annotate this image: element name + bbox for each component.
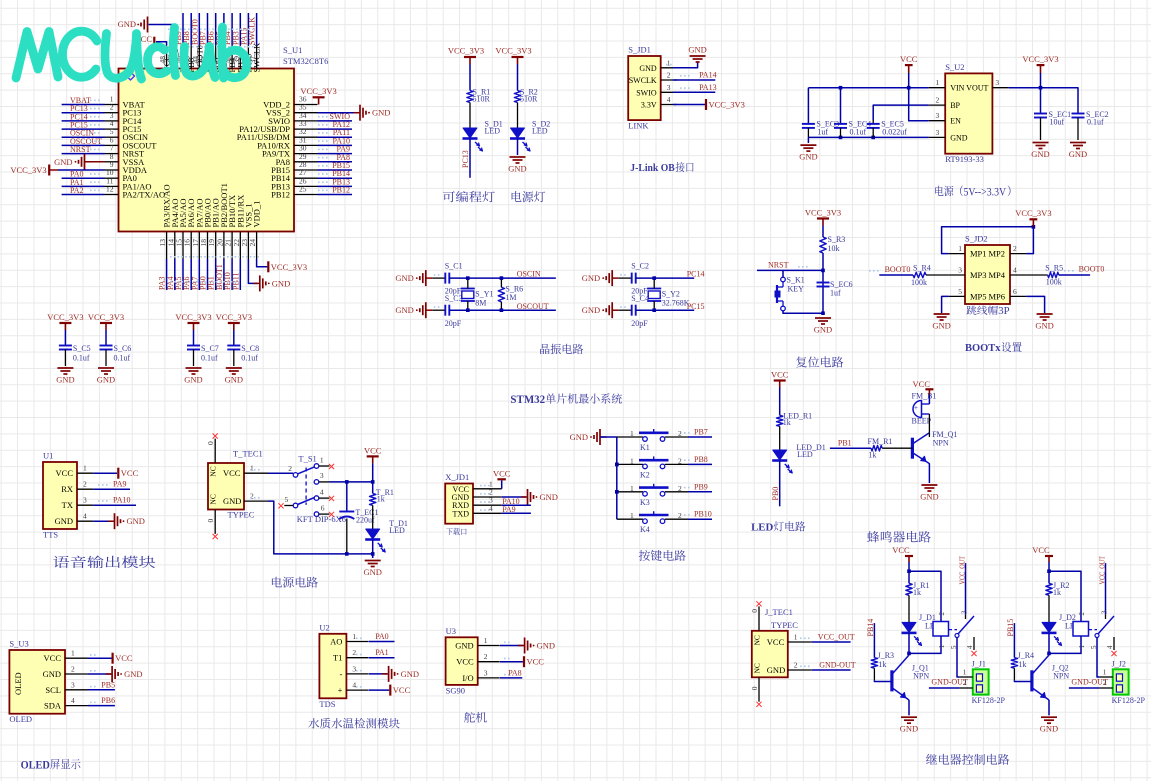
svg-text:GND: GND: [799, 152, 817, 162]
svg-text:GND: GND: [582, 305, 600, 315]
svg-text:3: 3: [935, 128, 939, 137]
svg-text:GND: GND: [43, 669, 61, 679]
svg-text:20pF: 20pF: [445, 319, 462, 328]
svg-text:K4: K4: [640, 525, 650, 534]
svg-text:GND: GND: [639, 64, 657, 73]
svg-text:NPN: NPN: [1053, 672, 1069, 681]
svg-text:VCC: VCC: [892, 545, 910, 555]
svg-text:VCC_3V3: VCC_3V3: [10, 165, 46, 175]
svg-text:PB5: PB5: [101, 680, 115, 689]
svg-text:GND: GND: [372, 108, 390, 118]
svg-text:VCC_3V3: VCC_3V3: [47, 312, 83, 322]
svg-text:S_U1: S_U1: [283, 45, 302, 55]
svg-text:LED: LED: [751, 521, 773, 533]
svg-text:RT9193-33: RT9193-33: [945, 154, 984, 164]
svg-text:3: 3: [352, 664, 356, 673]
svg-text:1: 1: [935, 78, 939, 87]
svg-text:3: 3: [958, 266, 962, 275]
svg-text:GND: GND: [401, 669, 419, 679]
svg-text:AO: AO: [330, 637, 342, 647]
svg-text:510R: 510R: [520, 95, 538, 104]
svg-text:VCC_OUT: VCC_OUT: [1098, 556, 1107, 585]
svg-text:1: 1: [1078, 644, 1086, 648]
svg-text:NRST: NRST: [768, 261, 789, 270]
svg-text:4: 4: [1013, 266, 1017, 275]
svg-text:1: 1: [630, 456, 634, 465]
svg-text:OSCOUT: OSCOUT: [517, 302, 549, 311]
svg-text:1: 1: [938, 644, 946, 648]
svg-text:VCC: VCC: [456, 657, 474, 667]
svg-text:10k: 10k: [828, 244, 840, 253]
svg-text:6: 6: [321, 504, 325, 513]
svg-text:S_C3: S_C3: [445, 294, 463, 303]
svg-text:PB10: PB10: [694, 510, 712, 519]
svg-text:VCC: VCC: [56, 468, 74, 478]
svg-text:GND: GND: [184, 375, 202, 385]
svg-text:GND: GND: [537, 641, 555, 651]
svg-text:2: 2: [83, 480, 87, 489]
svg-text:0.1uf: 0.1uf: [73, 354, 90, 363]
svg-text:VCC: VCC: [121, 468, 139, 478]
svg-text:PB9: PB9: [694, 482, 708, 491]
svg-text:STM32C8T6: STM32C8T6: [283, 56, 328, 66]
svg-text:1: 1: [83, 464, 87, 473]
svg-text:BEEP: BEEP: [912, 417, 932, 426]
svg-text:PC14: PC14: [687, 270, 705, 279]
svg-text:T_TEC1: T_TEC1: [233, 449, 263, 459]
svg-text:100k: 100k: [1046, 278, 1062, 287]
svg-text:SWIO: SWIO: [636, 88, 657, 97]
svg-text:5: 5: [958, 287, 962, 296]
svg-text:TTS: TTS: [43, 530, 58, 540]
svg-text:LINK: LINK: [628, 121, 649, 131]
svg-text:VCC_3V3: VCC_3V3: [1015, 208, 1051, 218]
svg-text:VCC_3V3: VCC_3V3: [216, 312, 252, 322]
svg-text:S_C5: S_C5: [73, 344, 91, 353]
svg-text:S_R5: S_R5: [1045, 264, 1063, 273]
svg-text:LED: LED: [485, 126, 501, 135]
svg-text:S_C4: S_C4: [631, 294, 649, 303]
svg-text:NPN: NPN: [933, 439, 949, 448]
svg-text:GND: GND: [767, 665, 785, 675]
svg-text:10uf: 10uf: [1050, 118, 1065, 127]
svg-text:3: 3: [83, 496, 87, 505]
svg-text:J_R3: J_R3: [878, 651, 894, 660]
svg-text:BOOT0: BOOT0: [885, 265, 911, 274]
svg-text:FM_R1: FM_R1: [868, 437, 893, 446]
svg-text:GND: GND: [225, 375, 243, 385]
svg-text:VCC: VCC: [393, 685, 411, 695]
svg-text:GND: GND: [688, 45, 706, 55]
svg-text:S_C2: S_C2: [631, 262, 649, 271]
svg-text:S_JD2: S_JD2: [965, 234, 988, 244]
svg-text:2: 2: [1013, 244, 1017, 253]
svg-text:SCL: SCL: [45, 685, 61, 695]
svg-text:OLED: OLED: [13, 672, 23, 695]
svg-text:2: 2: [963, 678, 967, 687]
svg-text:100k: 100k: [911, 278, 927, 287]
svg-text:SWCLK: SWCLK: [248, 17, 257, 45]
svg-text:GND: GND: [920, 492, 938, 502]
svg-text:VCC_3V3: VCC_3V3: [300, 86, 336, 96]
svg-text:I/O: I/O: [462, 673, 473, 683]
svg-text:U2: U2: [319, 622, 329, 632]
svg-text:3P: 3P: [998, 306, 1010, 317]
svg-text:+: +: [338, 685, 343, 695]
svg-text:K3: K3: [640, 498, 650, 507]
svg-text:BOOTx: BOOTx: [965, 342, 1001, 354]
svg-text:12: 12: [106, 185, 114, 194]
svg-text:PA8: PA8: [508, 668, 522, 677]
svg-text:GND: GND: [1040, 724, 1058, 734]
svg-text:VCC_3V3: VCC_3V3: [175, 312, 211, 322]
svg-text:PC15: PC15: [687, 302, 705, 311]
svg-text:X_JD1: X_JD1: [445, 472, 469, 482]
svg-text:S_U3: S_U3: [9, 639, 28, 649]
svg-text:2: 2: [938, 612, 946, 616]
svg-text:PA9: PA9: [502, 505, 516, 514]
svg-text:VCC: VCC: [223, 468, 241, 478]
svg-text:TYPEC: TYPEC: [771, 620, 798, 630]
svg-text:0.1uf: 0.1uf: [1087, 118, 1104, 127]
svg-text:VOUT: VOUT: [966, 84, 988, 93]
svg-text:6: 6: [1013, 287, 1017, 296]
svg-text:K1: K1: [640, 443, 650, 452]
svg-text:J_J1: J_J1: [972, 660, 986, 669]
svg-text:GND-OUT: GND-OUT: [819, 660, 856, 669]
svg-text:2: 2: [794, 661, 798, 670]
svg-text:VCC: VCC: [44, 653, 62, 663]
svg-text:VCC: VCC: [493, 469, 511, 479]
svg-text:NPN: NPN: [913, 672, 929, 681]
svg-text:1M: 1M: [505, 293, 516, 302]
svg-text:0: 0: [750, 609, 759, 613]
svg-text:PA13: PA13: [699, 83, 717, 92]
svg-text:+: +: [914, 404, 918, 412]
svg-text:MP2: MP2: [988, 249, 1005, 259]
svg-text:PA14: PA14: [699, 71, 717, 80]
svg-text:NC: NC: [752, 635, 761, 645]
svg-text:VCC_3V3: VCC_3V3: [495, 46, 531, 56]
svg-text:S_C8: S_C8: [241, 344, 259, 353]
svg-text:J-Link OB: J-Link OB: [630, 163, 675, 175]
svg-text:VCC: VCC: [771, 370, 789, 380]
svg-text:RX: RX: [61, 484, 73, 494]
svg-text:0: 0: [206, 441, 215, 445]
svg-text:2: 2: [352, 648, 356, 657]
svg-text:PB1: PB1: [838, 439, 852, 448]
svg-text:VIN: VIN: [950, 84, 964, 93]
svg-text:4: 4: [71, 696, 75, 705]
svg-text:1: 1: [250, 464, 254, 473]
svg-text:GND: GND: [55, 516, 73, 526]
svg-text:VCC_3V3: VCC_3V3: [1022, 54, 1058, 64]
svg-text:STM32: STM32: [510, 394, 545, 406]
svg-text:FM_B1: FM_B1: [912, 392, 937, 401]
svg-text:PA0: PA0: [375, 632, 389, 641]
svg-text:GND: GND: [124, 669, 142, 679]
svg-text:GND: GND: [363, 567, 381, 577]
svg-text:GND: GND: [395, 305, 413, 315]
svg-text:1: 1: [320, 456, 324, 465]
svg-text:1k: 1k: [783, 418, 791, 427]
svg-text:PA1: PA1: [375, 648, 389, 657]
svg-text:PB6: PB6: [101, 696, 115, 705]
svg-text:1uf: 1uf: [830, 289, 841, 298]
svg-text:PB8: PB8: [694, 455, 708, 464]
svg-text:J_R4: J_R4: [1018, 651, 1034, 660]
svg-text:0.1uf: 0.1uf: [201, 354, 218, 363]
svg-text:GND: GND: [127, 516, 145, 526]
svg-text:PC13: PC13: [461, 150, 470, 168]
svg-text:BOOT0: BOOT0: [1079, 265, 1105, 274]
svg-text:PB15: PB15: [1006, 619, 1015, 637]
svg-text:4: 4: [320, 488, 324, 497]
svg-text:4: 4: [1106, 645, 1114, 649]
svg-text:S_C7: S_C7: [201, 344, 219, 353]
svg-text:K2: K2: [640, 470, 650, 479]
svg-text:4: 4: [83, 512, 87, 521]
svg-text:GND: GND: [455, 641, 473, 651]
svg-text:PA9: PA9: [113, 480, 127, 489]
svg-text:VCC: VCC: [900, 54, 918, 64]
svg-text:GND: GND: [1031, 149, 1049, 159]
svg-text:MP6: MP6: [988, 291, 1005, 301]
svg-text:VCC_OUT: VCC_OUT: [958, 556, 967, 585]
svg-text:4: 4: [489, 504, 493, 513]
svg-text:1k: 1k: [1018, 660, 1026, 669]
svg-text:KFT DIP-6X6: KFT DIP-6X6: [297, 514, 346, 524]
svg-text:S_K1: S_K1: [787, 276, 805, 285]
svg-text:VCC: VCC: [767, 637, 785, 647]
svg-text:0: 0: [206, 519, 215, 523]
svg-text:VCC_OUT: VCC_OUT: [818, 632, 855, 641]
svg-text:PB12: PB12: [332, 186, 350, 195]
svg-text:GND: GND: [1069, 149, 1087, 159]
svg-text:GND: GND: [54, 157, 72, 167]
svg-text:S_R3: S_R3: [828, 235, 846, 244]
svg-text:NC: NC: [209, 466, 218, 476]
svg-text:PA10: PA10: [113, 496, 131, 505]
svg-text:MP1: MP1: [970, 249, 987, 259]
svg-text:510R: 510R: [473, 95, 491, 104]
svg-text:3: 3: [1101, 610, 1109, 614]
svg-text:J_TEC1: J_TEC1: [765, 607, 793, 617]
svg-text:0: 0: [750, 686, 759, 690]
svg-text:2: 2: [935, 96, 939, 105]
svg-text:S_U2: S_U2: [945, 62, 964, 72]
svg-text:VCC_3V3: VCC_3V3: [805, 208, 841, 218]
svg-text:3: 3: [667, 83, 671, 92]
svg-text:VCC: VCC: [913, 379, 931, 389]
svg-text:1uf: 1uf: [817, 128, 828, 137]
svg-text:KF128-2P: KF128-2P: [1112, 696, 1146, 705]
svg-text:1: 1: [630, 511, 634, 520]
svg-text:5V-->3.3V: 5V-->3.3V: [964, 186, 1007, 199]
svg-text:2: 2: [288, 464, 292, 473]
svg-text:SG90: SG90: [446, 685, 465, 695]
svg-text:1: 1: [667, 58, 671, 67]
svg-text:SWCLK: SWCLK: [629, 76, 657, 85]
svg-text:4: 4: [966, 645, 974, 649]
svg-text:KEY: KEY: [788, 285, 805, 294]
svg-text:1: 1: [1103, 668, 1107, 677]
svg-text:VCC_3V3: VCC_3V3: [271, 262, 307, 272]
svg-text:NRST: NRST: [70, 145, 91, 154]
svg-text:2: 2: [71, 665, 75, 674]
svg-text:1k: 1k: [868, 451, 876, 460]
svg-text:1: 1: [71, 649, 75, 658]
svg-text:PB14: PB14: [866, 619, 875, 637]
svg-text:3: 3: [484, 668, 488, 677]
svg-text:2: 2: [250, 492, 254, 501]
svg-text:PA2: PA2: [70, 186, 84, 195]
svg-text:1: 1: [630, 484, 634, 493]
svg-text:8M: 8M: [475, 299, 486, 308]
svg-text:TXD: TXD: [453, 509, 470, 518]
svg-text:20pF: 20pF: [631, 319, 648, 328]
svg-text:VCC_3V3: VCC_3V3: [709, 100, 745, 110]
svg-text:S_R4: S_R4: [913, 264, 931, 273]
svg-text:TYPEC: TYPEC: [228, 510, 255, 520]
svg-text:OSCIN: OSCIN: [517, 270, 541, 279]
svg-text:1: 1: [484, 636, 488, 645]
svg-text:VCC: VCC: [115, 653, 133, 663]
svg-text:J_J2: J_J2: [1112, 660, 1126, 669]
svg-text:GND: GND: [223, 496, 241, 506]
svg-text:1k: 1k: [377, 495, 385, 504]
svg-text:EN: EN: [950, 117, 961, 126]
svg-text:PB7: PB7: [694, 428, 708, 437]
svg-text:NC: NC: [209, 494, 218, 504]
svg-text:MP5: MP5: [970, 291, 987, 301]
svg-text:3: 3: [935, 111, 939, 120]
svg-text:S_C1: S_C1: [445, 262, 463, 271]
svg-text:GND: GND: [582, 273, 600, 283]
svg-text:GND: GND: [97, 375, 115, 385]
svg-text:BP: BP: [950, 101, 960, 110]
svg-text:MP4: MP4: [988, 270, 1005, 280]
svg-text:1: 1: [630, 429, 634, 438]
svg-text:3: 3: [71, 680, 75, 689]
svg-text:1: 1: [352, 632, 356, 641]
svg-text:GND: GND: [56, 375, 74, 385]
svg-text:0.1uf: 0.1uf: [850, 128, 867, 137]
svg-text:S_Y2: S_Y2: [662, 290, 680, 299]
svg-text:MP3: MP3: [970, 270, 987, 280]
svg-text:S_JD1: S_JD1: [628, 45, 651, 55]
svg-text:T1: T1: [333, 653, 342, 663]
svg-text:5: 5: [284, 495, 288, 504]
svg-text:1k: 1k: [913, 588, 921, 597]
svg-text:GND: GND: [1035, 321, 1053, 331]
svg-text:1: 1: [958, 244, 962, 253]
svg-text:OLED: OLED: [9, 714, 32, 724]
svg-text:1: 1: [963, 668, 967, 677]
svg-text:GND: GND: [932, 321, 950, 331]
svg-text:GND: GND: [272, 278, 290, 288]
svg-text:3: 3: [320, 471, 324, 480]
svg-text:PB0: PB0: [771, 487, 780, 501]
svg-text:T_S1: T_S1: [298, 454, 316, 464]
svg-text:PB12: PB12: [271, 190, 290, 200]
svg-text:TDS: TDS: [319, 699, 335, 709]
svg-text:U3: U3: [446, 626, 456, 636]
svg-text:5: 5: [950, 645, 958, 649]
svg-text:U1: U1: [43, 451, 53, 461]
svg-text:2: 2: [1103, 678, 1107, 687]
svg-text:LED: LED: [532, 126, 548, 135]
svg-text:S_C6: S_C6: [114, 344, 132, 353]
svg-text:GND: GND: [395, 273, 413, 283]
svg-text:3.3V: 3.3V: [641, 101, 657, 110]
svg-text:VCC_3V3: VCC_3V3: [88, 312, 124, 322]
svg-text:4: 4: [352, 681, 356, 690]
svg-text:PA2/TX/AO: PA2/TX/AO: [123, 190, 166, 200]
svg-text:VCC: VCC: [527, 657, 545, 667]
svg-text:OLED: OLED: [21, 759, 50, 772]
svg-text:1k: 1k: [1053, 588, 1061, 597]
svg-text:VCC_3V3: VCC_3V3: [448, 46, 484, 56]
svg-text:GND: GND: [570, 432, 588, 442]
svg-text:VCC: VCC: [1032, 545, 1050, 555]
svg-text:VDD_1: VDD_1: [252, 201, 262, 228]
svg-text:VCC: VCC: [364, 446, 382, 456]
svg-text:GND: GND: [118, 19, 136, 29]
svg-text:KF128-2P: KF128-2P: [972, 696, 1006, 705]
svg-text:2: 2: [1078, 612, 1086, 616]
svg-text:-: -: [340, 669, 343, 679]
svg-text:SDA: SDA: [44, 701, 62, 711]
svg-text:GND: GND: [508, 164, 526, 174]
svg-text:0.1uf: 0.1uf: [241, 354, 258, 363]
svg-text:LED: LED: [797, 450, 813, 459]
svg-text:4: 4: [667, 95, 671, 104]
svg-text:GND: GND: [814, 325, 832, 335]
svg-text:3: 3: [961, 610, 969, 614]
svg-text:1: 1: [794, 633, 798, 642]
svg-text:NC: NC: [752, 663, 761, 673]
svg-text:5: 5: [1090, 645, 1098, 649]
svg-text:LED: LED: [389, 526, 405, 535]
svg-text:GND: GND: [900, 724, 918, 734]
svg-text:TX: TX: [62, 500, 73, 510]
svg-text:25: 25: [299, 185, 307, 194]
svg-text:0.022uf: 0.022uf: [882, 128, 907, 137]
svg-text:3: 3: [995, 78, 999, 87]
svg-text:GND: GND: [950, 133, 968, 142]
svg-text:2: 2: [484, 652, 488, 661]
svg-text:S_Y1: S_Y1: [475, 290, 493, 299]
svg-text:24: 24: [248, 239, 257, 247]
svg-text:GND: GND: [540, 492, 558, 502]
svg-text:2: 2: [667, 71, 671, 80]
svg-text:32.768K: 32.768K: [662, 299, 690, 308]
svg-text:1k: 1k: [878, 660, 886, 669]
svg-text:0.1uf: 0.1uf: [114, 354, 131, 363]
